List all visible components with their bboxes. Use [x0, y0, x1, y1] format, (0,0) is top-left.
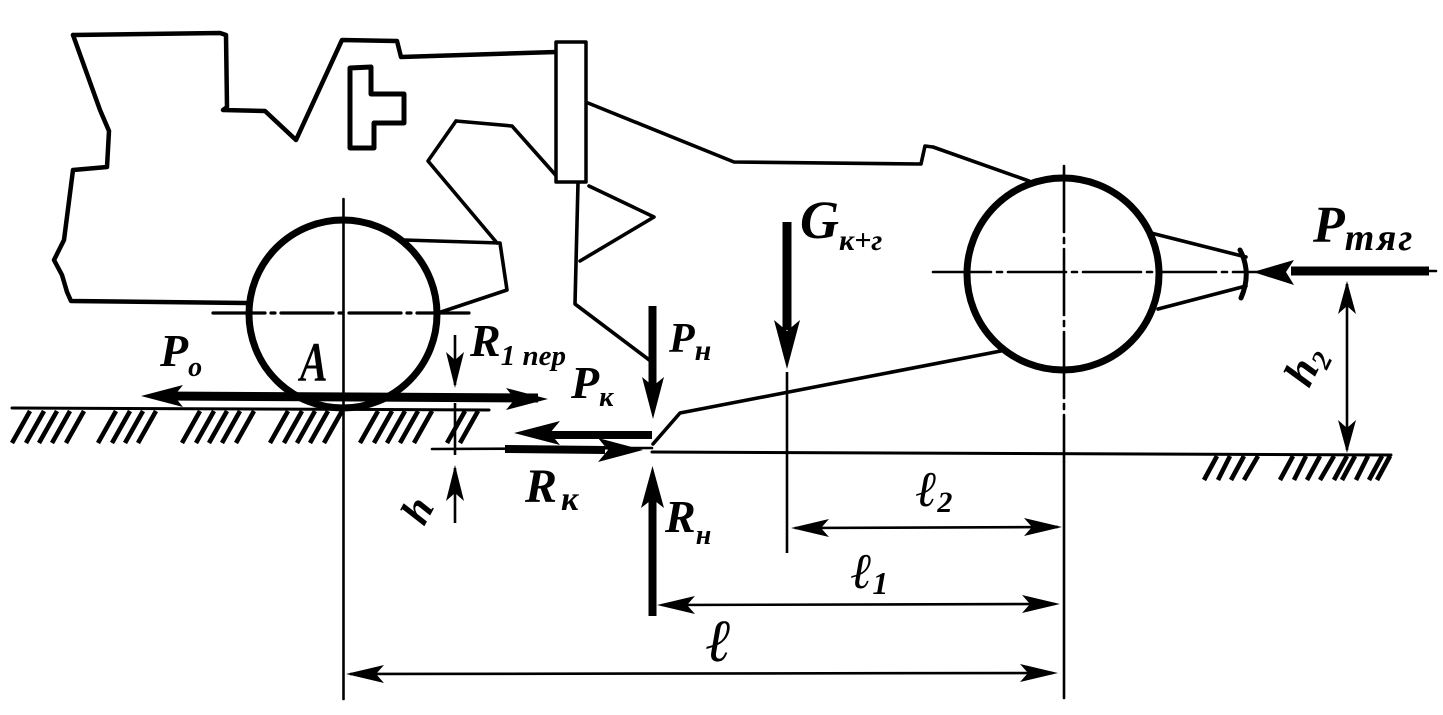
- right ground line: [652, 452, 1391, 455]
- dimension h2 line: [1346, 284, 1349, 450]
- force P_n shaft: [649, 306, 657, 395]
- arrowhead l1 left: [657, 596, 695, 614]
- arrowhead l right: [1020, 664, 1058, 682]
- force R_k shaft: [505, 449, 605, 450]
- arrowhead R_1per (right): [506, 388, 548, 410]
- towing hitch lower link: [1158, 286, 1246, 309]
- rear wheel vertical center line: [1063, 166, 1066, 462]
- hitch eye: [1240, 250, 1246, 298]
- towing hitch upper link: [1151, 233, 1246, 257]
- dimension l line: [350, 673, 1053, 674]
- rear wheel: [967, 178, 1159, 370]
- drawbar wedge: [580, 186, 654, 261]
- rear notch: [428, 121, 497, 243]
- hitch frame upright bar: [556, 42, 586, 182]
- arrowhead P_o (left): [141, 385, 183, 407]
- force R_n shaft: [649, 495, 657, 616]
- dimension h line: [454, 335, 457, 523]
- arrowhead l1 right: [1022, 595, 1060, 613]
- svg-text:A: A: [297, 331, 327, 394]
- arrowhead l2 left: [791, 519, 829, 537]
- arrowhead h down: [446, 352, 464, 388]
- tractor body outline: [73, 33, 556, 140]
- cab rear to hitch-frame line: [456, 121, 560, 180]
- left ground hatching: [12, 411, 478, 443]
- drawbar height line: [432, 448, 652, 449]
- arrowhead P_k (left): [514, 421, 560, 445]
- rear wheel horizontal center line: [933, 271, 1436, 272]
- arrowhead R_k (right): [598, 438, 643, 462]
- dimension l2 line: [795, 527, 1058, 528]
- force G shaft: [783, 222, 792, 330]
- tractor front/left outline: [54, 35, 246, 303]
- exhaust muffler: [350, 67, 404, 148]
- dimension l1 line: [662, 604, 1055, 605]
- arrowhead l left: [346, 665, 384, 683]
- front wheel vertical center line: [342, 199, 345, 699]
- implement bottom edge: [653, 350, 1006, 444]
- arrowhead G (down): [774, 320, 800, 369]
- svg-text:ℓ: ℓ: [706, 608, 732, 674]
- arrowhead h2 down: [1338, 420, 1356, 453]
- G extension line: [786, 372, 789, 553]
- left ground line: [12, 408, 489, 410]
- arrowhead h up: [446, 465, 464, 501]
- rear fender: [404, 240, 507, 313]
- right ground hatching: [1204, 456, 1390, 480]
- arrowhead R_n (up): [641, 466, 664, 508]
- front wheel horizontal center line: [213, 311, 472, 314]
- arrowhead P_tyag (left): [1253, 260, 1294, 285]
- force P_o / R_1per shaft: [160, 396, 538, 398]
- arrowhead l2 right: [1024, 518, 1062, 536]
- arrowhead P_n (down): [642, 377, 664, 419]
- arrowhead h2 up: [1338, 281, 1356, 314]
- force P_tyag shaft: [1291, 267, 1429, 276]
- front wheel: [249, 220, 437, 408]
- implement top edge: [588, 103, 1029, 181]
- implement front vertical: [575, 183, 652, 362]
- force P_k shaft: [545, 431, 652, 439]
